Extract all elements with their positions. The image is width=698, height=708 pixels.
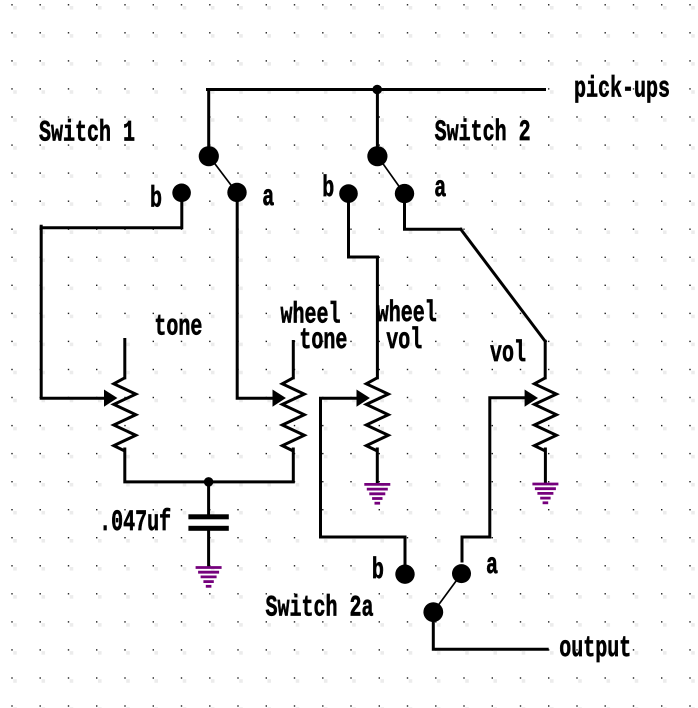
wire — [462, 398, 525, 561]
switch Switch 2 — [339, 146, 414, 203]
svg-text:.047uf: .047uf — [99, 505, 171, 539]
svg-text:vol: vol — [490, 336, 526, 370]
svg-text:tone: tone — [154, 310, 202, 344]
svg-text:a: a — [486, 548, 498, 582]
wire — [292, 342, 295, 378]
wire — [207, 531, 210, 566]
wire — [123, 340, 126, 378]
svg-text:a: a — [262, 180, 274, 214]
wire — [349, 200, 378, 257]
wire — [544, 341, 547, 378]
wire — [376, 90, 379, 147]
svg-text:Switch 2a: Switch 2a — [266, 591, 374, 625]
wire — [405, 200, 461, 229]
wire — [41, 226, 106, 398]
wire — [208, 88, 545, 91]
wire — [376, 449, 379, 483]
svg-text:tone: tone — [299, 323, 347, 357]
svg-text:Switch 2: Switch 2 — [435, 115, 531, 149]
wire — [376, 257, 379, 378]
capacitor .047uf — [188, 514, 228, 531]
switch Switch 2a — [395, 564, 471, 622]
svg-text:vol: vol — [386, 323, 422, 357]
wire — [237, 200, 275, 398]
svg-text:output: output — [559, 631, 631, 665]
ground wheel vol — [364, 484, 390, 503]
ground cap — [196, 568, 222, 587]
potentiometer wheel vol — [357, 378, 389, 451]
wire — [125, 449, 293, 482]
potentiometer vol — [525, 378, 557, 451]
wire — [207, 90, 210, 147]
wire — [321, 398, 406, 564]
potentiometer tone — [104, 378, 136, 451]
wire — [544, 449, 547, 482]
svg-text:a: a — [434, 171, 446, 205]
wire — [41, 200, 182, 228]
wire — [207, 482, 210, 514]
switch Switch 1 — [172, 146, 246, 202]
wire — [461, 229, 545, 341]
ground vol — [532, 484, 558, 503]
node cap junction — [204, 477, 214, 487]
svg-text:pick-ups: pick-ups — [574, 72, 670, 106]
wire — [433, 622, 547, 649]
svg-text:Switch 1: Switch 1 — [39, 116, 135, 150]
node pickups junction — [372, 85, 382, 95]
potentiometer wheel tone — [273, 378, 305, 451]
svg-text:b: b — [372, 553, 384, 587]
svg-text:b: b — [322, 171, 334, 205]
svg-text:b: b — [150, 182, 162, 216]
